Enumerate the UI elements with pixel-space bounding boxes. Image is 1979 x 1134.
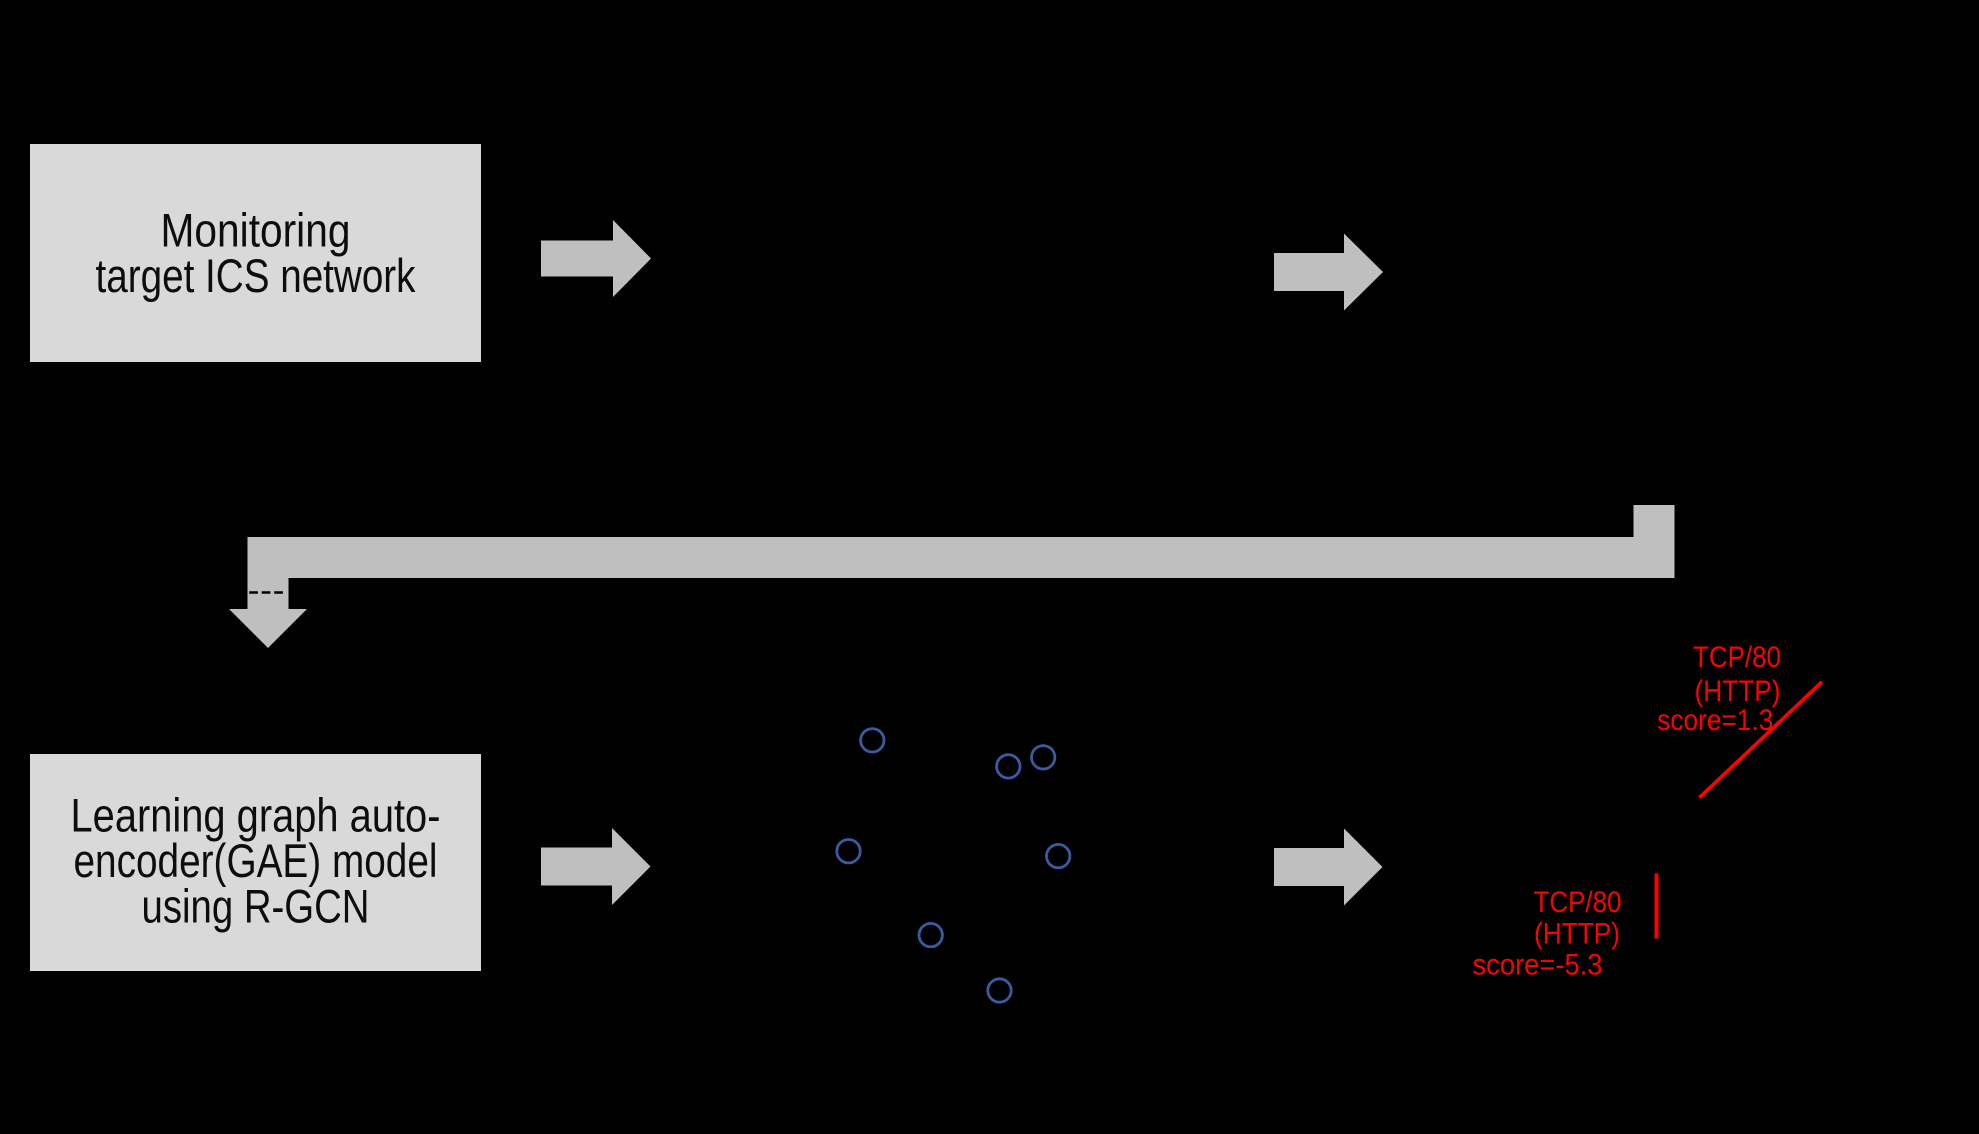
svg-text:TCP/80: TCP/80 xyxy=(1534,886,1622,919)
arrow A1 (monitoring to center, top row) xyxy=(541,220,651,297)
arrow A4 (graph to scores, bottom row) xyxy=(1274,829,1383,906)
arrow A2 (center to right, top row) xyxy=(1274,234,1383,311)
box: Monitoring target ICS network xyxy=(30,144,481,362)
elbow feedback arrow (right top down to lower-left) xyxy=(229,505,1654,648)
svg-text:score=-5.3: score=-5.3 xyxy=(1473,949,1603,982)
svg-text:target ICS network: target ICS network xyxy=(96,249,416,302)
graph node n5 xyxy=(1047,844,1070,867)
graph node n2 xyxy=(997,755,1020,778)
red edge line (diagonal, score=1.3) xyxy=(1700,682,1823,798)
dashed phase divider (black dashes over elbow shaft) xyxy=(249,591,283,594)
box: Learning graph auto-encoder(GAE) model using R-GCN xyxy=(30,754,481,971)
graph node n3 xyxy=(1032,746,1055,769)
svg-text:using R-GCN: using R-GCN xyxy=(142,880,370,933)
label: TCP/80 (HTTP) score=-5.3 (anomalous edge annotation) xyxy=(1473,886,1622,982)
label: TCP/80 (HTTP) score=1.3 (normal edge annotation) xyxy=(1657,641,1781,737)
graph node n1 xyxy=(861,729,884,752)
arrow A3 (GAE box to graph, bottom row) xyxy=(541,828,651,905)
graph node n7 xyxy=(988,979,1011,1002)
svg-text:score=1.3: score=1.3 xyxy=(1657,704,1773,737)
svg-text:(HTTP): (HTTP) xyxy=(1534,918,1620,951)
graph node n4 xyxy=(837,840,860,863)
red edge line (vertical, score=-5.3) xyxy=(1655,874,1659,939)
svg-text:TCP/80: TCP/80 xyxy=(1693,641,1781,674)
graph node n6 xyxy=(919,923,942,946)
